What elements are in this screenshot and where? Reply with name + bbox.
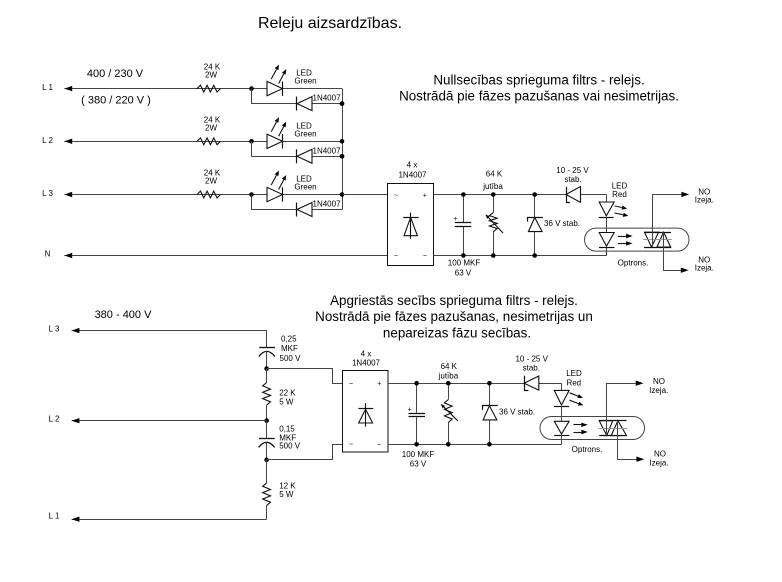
svg-text:5 W: 5 W [279, 490, 294, 499]
junction dot R4 top [491, 192, 496, 197]
zener diode D9 10-25V stab [515, 355, 548, 391]
svg-text:1N4007: 1N4007 [313, 146, 342, 155]
bridge rectifier U1 4x1N4007 [388, 160, 434, 265]
wire phase L 1 line [64, 88, 342, 90]
junction dot D8 bottom [487, 442, 492, 447]
caption: zero-sequence relay description [399, 72, 679, 103]
junction dot R4 bottom [491, 253, 496, 258]
wire bottom rail [434, 255, 607, 257]
label 400/230V [87, 68, 144, 80]
svg-text:LED: LED [566, 369, 582, 378]
junction dot C3 [264, 458, 269, 463]
svg-text:1N4007: 1N4007 [352, 358, 381, 367]
junction dot D8 top [487, 381, 492, 386]
svg-text:Optrons.: Optrons. [572, 445, 603, 454]
diode D2b 1N4007 [297, 146, 342, 163]
svg-text:1N4007: 1N4007 [313, 200, 342, 209]
svg-text:jutība: jutība [438, 371, 459, 380]
opto LED (bottom) [554, 421, 569, 444]
svg-text:2W: 2W [205, 71, 217, 80]
capacitor C1 100MKF 63V [448, 195, 481, 278]
wire N line [64, 255, 388, 257]
LED D2a Green [267, 117, 317, 148]
LED D1a Green [267, 65, 317, 96]
svg-text:stab.: stab. [564, 175, 581, 184]
resistor R6 12K 5W [263, 460, 297, 520]
svg-text:1N4007: 1N4007 [398, 171, 427, 180]
svg-text:2W: 2W [205, 177, 217, 186]
wire phase L 2 line [64, 141, 342, 143]
node label L2 bottom [49, 415, 60, 424]
svg-text:~: ~ [394, 192, 398, 199]
svg-text:Green: Green [294, 129, 316, 138]
wire C3 to bridge [267, 445, 343, 460]
svg-text:2W: 2W [205, 123, 217, 132]
svg-text:10 - 25 V: 10 - 25 V [556, 166, 589, 175]
LED D3a Green [267, 171, 317, 202]
junction dot branch-bus L 1 [340, 101, 345, 106]
junction dot L 3/branch [249, 192, 254, 197]
arrow L1 bottom [72, 517, 80, 522]
svg-text:100 MKF: 100 MKF [448, 259, 481, 268]
junction dot R7 top [446, 381, 451, 386]
wire C2 to bridge [267, 369, 343, 384]
svg-text:22 K: 22 K [279, 388, 296, 397]
svg-text:Izeja.: Izeja. [695, 264, 714, 273]
junction dot L2 bottom [264, 418, 269, 423]
resistor R2 24K 2W [197, 115, 221, 144]
svg-text:380 - 400 V: 380 - 400 V [95, 309, 153, 321]
svg-text:400 / 230 V: 400 / 230 V [87, 68, 144, 80]
svg-text:Releju aizsardzības.: Releju aizsardzības. [258, 15, 402, 32]
svg-text:L 3: L 3 [42, 189, 53, 198]
label (380/220V) [81, 95, 151, 107]
label 380-400V [95, 309, 153, 321]
junction dot C4 bottom [414, 442, 419, 447]
svg-text:Nullsecības sprieguma filtrs -: Nullsecības sprieguma filtrs - relejs. [433, 72, 644, 87]
junction dot bus-bridge [340, 192, 345, 197]
svg-text:( 380 / 220 V ): ( 380 / 220 V ) [81, 95, 151, 107]
svg-text:L 2: L 2 [42, 136, 53, 145]
junction dot D5 bottom [532, 253, 537, 258]
svg-text:+: + [423, 192, 427, 199]
arrow L3 bottom [72, 328, 80, 333]
resistor R1 24K 2W [197, 63, 221, 92]
junction dot C1 bottom [461, 253, 466, 258]
svg-text:64 K: 64 K [486, 170, 503, 179]
wire L3 bottom line [72, 331, 267, 348]
wire L 1 diode branch [252, 89, 343, 104]
LED D7 Red [599, 182, 629, 233]
svg-text:NO: NO [654, 450, 666, 459]
svg-text:−: − [377, 442, 381, 449]
svg-text:Nostrādā pie fāzes pazušanas v: Nostrādā pie fāzes pazušanas vai nesimet… [399, 88, 679, 103]
bridge rectifier U3 4x1N4007 [343, 349, 389, 452]
svg-text:L 1: L 1 [42, 83, 53, 92]
capacitor C2 0,25MKF 500V [259, 335, 301, 369]
wire phase L 3 line [64, 194, 342, 196]
wire bus [342, 89, 344, 210]
wire L2 bottom line [72, 420, 267, 422]
label NO Izeja 4 [649, 450, 668, 468]
diode D3b 1N4007 [297, 200, 342, 217]
svg-text:NO: NO [653, 377, 665, 386]
wire bottom rail (bottom ckt) [388, 444, 562, 446]
title [258, 15, 402, 32]
label Optrons (bottom) [572, 445, 603, 454]
optocoupler U4 body [540, 417, 645, 440]
opto emission arrows [618, 234, 633, 246]
optocoupler U2 body [585, 228, 690, 251]
wire top rail (bottom ckt) [388, 383, 561, 385]
svg-text:4 x: 4 x [407, 160, 418, 169]
svg-text:63 V: 63 V [455, 269, 472, 278]
svg-text:36 V stab.: 36 V stab. [499, 408, 535, 417]
svg-text:nepareizas fāzu secības.: nepareizas fāzu secības. [383, 325, 531, 340]
zener diode D5 36V stab [528, 195, 581, 256]
wire NO output 3 [607, 381, 644, 436]
caption: reverse-sequence relay description [315, 293, 593, 340]
svg-text:L 1: L 1 [49, 512, 60, 521]
arrow L 3 [64, 192, 72, 197]
svg-text:5 W: 5 W [279, 398, 294, 407]
svg-text:Nostrādā pie fāzes pazušanas,: Nostrādā pie fāzes pazušanas, nesimetrij… [315, 309, 593, 324]
label NO Izeja 1 [695, 188, 714, 205]
wire bus to bridge [342, 194, 388, 196]
junction dot bus L2 [340, 139, 345, 144]
wire L1 bottom line [72, 519, 267, 521]
svg-text:L 2: L 2 [49, 415, 60, 424]
svg-text:0,15: 0,15 [279, 425, 295, 434]
svg-text:500 V: 500 V [279, 442, 301, 451]
svg-text:Red: Red [566, 378, 581, 387]
opto LED [599, 233, 615, 256]
svg-text:4 x: 4 x [361, 349, 372, 358]
junction dot C1 top [461, 192, 466, 197]
svg-text:+: + [407, 407, 411, 414]
potentiometer R7 64K jutiba [438, 362, 459, 445]
svg-text:+: + [377, 381, 381, 388]
zener diode D6 10-25V stab [556, 166, 589, 203]
svg-text:63 V: 63 V [410, 460, 427, 469]
svg-text:~: ~ [394, 253, 398, 260]
node label L 2 [42, 136, 53, 145]
potentiometer R4 64K jutiba [482, 170, 503, 256]
label NO Izeja 2 [695, 255, 714, 272]
junction dot L 2/branch [249, 139, 254, 144]
svg-text:Green: Green [294, 77, 316, 86]
svg-text:1N4007: 1N4007 [313, 94, 342, 103]
resistor R5 22K 5W [263, 369, 297, 421]
svg-text:0,25: 0,25 [281, 335, 297, 344]
svg-text:36 V stab.: 36 V stab. [544, 219, 580, 228]
arrow L 2 [64, 139, 72, 144]
arrow L2 bottom [72, 418, 80, 423]
triac Q1 [643, 232, 672, 247]
node label L 1 [42, 83, 53, 92]
svg-text:MKF: MKF [281, 344, 298, 353]
opto emission arrows (bottom) [574, 423, 588, 435]
LED D10 Red [554, 369, 584, 421]
svg-text:64 K: 64 K [441, 362, 458, 371]
svg-text:500 V: 500 V [280, 354, 302, 363]
svg-text:Izeja.: Izeja. [695, 196, 714, 205]
wire L 3 diode branch [252, 195, 343, 210]
node label N [45, 250, 51, 259]
svg-text:10 - 25 V: 10 - 25 V [515, 355, 548, 364]
junction dot C2 [264, 366, 269, 371]
wire NO output 2 [664, 232, 689, 273]
junction dot C4 top [414, 381, 419, 386]
capacitor C4 100MKF 63V [402, 383, 435, 468]
svg-text:+: + [453, 216, 457, 223]
resistor R3 24K 2W [197, 169, 221, 198]
node label L1 bottom [49, 512, 60, 521]
svg-text:12 K: 12 K [279, 482, 296, 491]
junction dot D5 top [532, 192, 537, 197]
junction dot bus L2 branch [340, 154, 345, 159]
svg-text:L 3: L 3 [49, 325, 60, 334]
diode D1b 1N4007 [297, 94, 342, 111]
triac Q2 [599, 421, 628, 436]
svg-text:Izeja.: Izeja. [649, 458, 668, 467]
junction dot branch-bus L 2 [340, 154, 345, 159]
svg-text:jutība: jutība [482, 182, 503, 191]
svg-text:−: − [423, 253, 427, 260]
junction dot L 1/branch [249, 86, 254, 91]
arrow L 1 [64, 86, 72, 91]
svg-text:Optrons.: Optrons. [618, 259, 649, 268]
node label L 3 [42, 189, 53, 198]
capacitor C3 0,15MKF 500V [259, 421, 301, 460]
wire NO output 1 [653, 192, 690, 247]
svg-text:stab.: stab. [523, 364, 540, 373]
wire NO output 4 [618, 421, 645, 462]
svg-text:~: ~ [349, 381, 353, 388]
svg-text:100 MKF: 100 MKF [402, 450, 435, 459]
node label L3 bottom [49, 325, 60, 334]
svg-text:~: ~ [349, 442, 353, 449]
label Optrons (top) [618, 259, 649, 268]
wire top rail [434, 194, 607, 196]
wire L 2 diode branch [252, 141, 343, 156]
zener diode D8 36V stab [483, 383, 536, 444]
svg-text:N: N [45, 250, 51, 259]
junction dot R7 bottom [446, 442, 451, 447]
arrow N [64, 253, 72, 258]
svg-text:Apgriestās secībs sprieguma fi: Apgriestās secībs sprieguma filtrs - rel… [330, 293, 578, 308]
svg-text:Green: Green [294, 183, 316, 192]
svg-text:Izeja.: Izeja. [649, 386, 668, 395]
label NO Izeja 3 [649, 377, 668, 395]
svg-text:Red: Red [612, 190, 627, 199]
junction dot bus L1 branch [340, 101, 345, 106]
